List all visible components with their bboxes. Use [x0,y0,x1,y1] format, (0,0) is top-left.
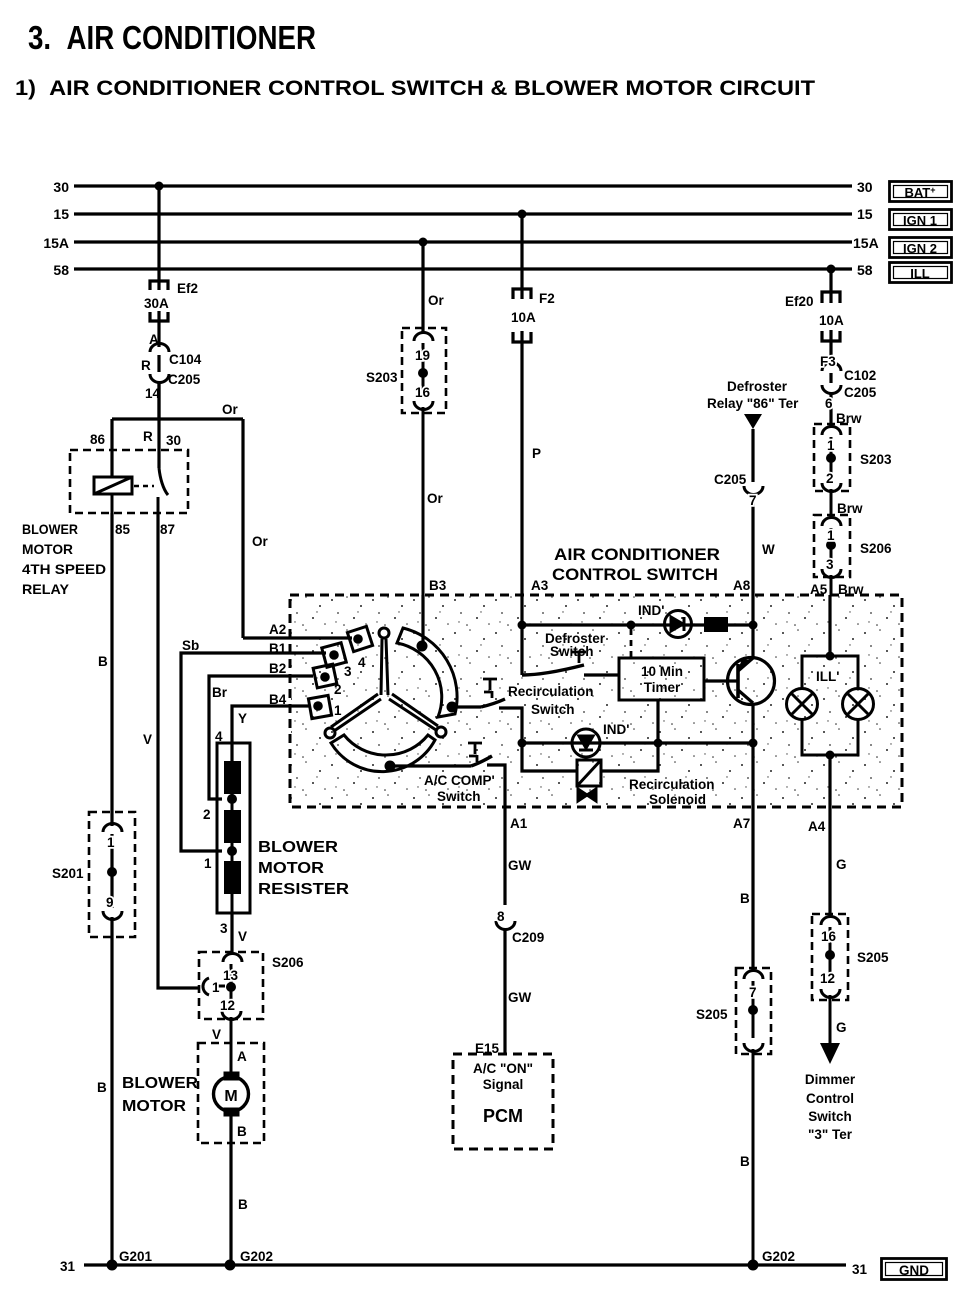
S206 pin 12 connector [222,1011,241,1020]
node G202 (motor) [225,1260,236,1271]
node S203 splice [418,368,428,378]
svg-text:G: G [836,857,847,872]
wire A1 GW down to C209 [496,807,515,1054]
blower motor resistor box [217,743,250,913]
relay coil-switch dashed link [134,485,154,488]
svg-text:6: 6 [825,396,833,411]
dashed control link to timer [630,629,633,658]
upper rail A3 to A8 [522,621,758,659]
wire Or from bus15A down to S203 [423,242,445,334]
svg-text:A5: A5 [810,582,828,597]
wire B from motor to G202 [231,1116,248,1265]
svg-text:G202: G202 [762,1249,795,1264]
wire timer to transistor base [704,679,738,682]
svg-text:Switch: Switch [531,702,575,717]
svg-text:7: 7 [749,493,757,508]
svg-text:B2: B2 [269,661,286,676]
S206 pin 13 connector [223,954,242,963]
terminal box BAT+ [890,182,952,283]
relay switch blade [159,468,168,495]
node: bus30 to Ef2 junction [155,182,164,191]
wire G from S205 to dimmer arrow [829,995,832,1043]
svg-text:A2: A2 [269,622,286,637]
connector C205 (pin 6) [822,385,841,394]
svg-text:3: 3 [220,921,228,936]
svg-text:Or: Or [252,534,269,549]
svg-text:Or: Or [428,293,445,308]
svg-text:Dimmer: Dimmer [805,1072,856,1087]
svg-text:B: B [97,1080,107,1095]
wire Brw to S203 [829,392,832,428]
svg-text:2: 2 [203,807,211,822]
relay coil [94,468,168,513]
svg-text:F3: F3 [820,354,836,369]
Y wire from B4 to resistor top [232,706,310,761]
wire bus30 down to fuse Ef2 [150,186,169,419]
svg-text:A/C "ON": A/C "ON" [473,1061,533,1076]
bottom ground bus 31 [84,1260,846,1271]
a/c comp switch [390,743,505,807]
wire R down into relay [157,381,160,468]
node resistor tap 2 [227,794,237,804]
wire 86 down into relay coil [110,419,113,477]
wire solenoid to lower rail [601,743,658,771]
splice S203 box (right) [814,424,850,491]
svg-text:MOTOR: MOTOR [258,860,324,877]
fan switch terminal 3 [322,643,346,667]
svg-text:S201: S201 [52,866,84,881]
node S205 right splice [825,950,835,960]
lamp right [843,689,874,720]
svg-text:3: 3 [344,664,352,679]
10 min timer box [619,658,704,700]
svg-text:Signal: Signal [483,1077,524,1092]
svg-text:IND': IND' [603,722,629,737]
svg-text:A4: A4 [808,819,826,834]
svg-text:IND': IND' [638,603,664,618]
svg-text:Ef20: Ef20 [785,294,814,309]
bus line 30 [74,186,852,269]
wire recirc sw to solenoid [522,743,577,771]
indicator LED IND' (top) [665,611,692,638]
svg-text:GW: GW [508,858,532,873]
S203 right pin 1 connector [822,427,841,436]
resistor internal wire [231,794,234,913]
svg-text:Sb: Sb [182,638,199,653]
svg-text:1: 1 [212,980,220,995]
wire B from A7 down to S205 [740,807,753,972]
node S205 left splice [748,1005,758,1015]
connector C104 (pin A / R) [150,344,169,353]
lamp left [787,689,818,720]
bus line 15 [74,212,852,215]
dimmer control arrow [820,1043,840,1064]
S205 right pin 12 connector [821,989,840,998]
svg-text:30: 30 [857,179,873,195]
fuse F2 [513,289,531,299]
svg-text:10 Min: 10 Min [641,664,683,679]
svg-text:Switch: Switch [550,644,594,659]
svg-text:F2: F2 [539,291,555,306]
bus labels left [43,179,69,278]
terminal box GND [882,1259,947,1280]
wire A5 Brw down to box [830,575,833,595]
node comp feed on lower band [385,761,396,772]
svg-text:3: 3 [826,557,834,572]
fuse Ef2 [150,281,168,290]
svg-text:Timer: Timer [644,680,681,695]
svg-text:30A: 30A [144,296,169,311]
blower motor M [214,1072,249,1116]
recirculation switch [452,679,522,743]
svg-text:7: 7 [749,985,757,1000]
svg-text:1: 1 [334,703,342,718]
wire Or down to A2 [241,419,244,638]
wire V from relay 87 down to S206 pin 11 [143,513,198,988]
svg-text:B: B [98,654,108,669]
svg-text:B: B [740,1154,750,1169]
svg-text:Y: Y [238,711,247,726]
terminal box ILL [890,263,952,283]
S206 right pin 1 connector [822,518,841,527]
splice S206 box (blower) [199,952,263,1019]
svg-text:4: 4 [215,729,223,744]
svg-text:Defroster: Defroster [727,379,788,394]
connector C209 (pin 8) [496,921,515,930]
label: blower motor 4th speed relay [22,521,106,597]
svg-text:15: 15 [857,206,873,222]
wire from bus15 down to fuse F2 [513,214,531,595]
svg-text:16: 16 [821,929,837,944]
svg-text:Or: Or [427,491,444,506]
wire V from S206 to blower motor [230,1017,233,1073]
fan switch terminal 2 [313,664,337,688]
svg-text:87: 87 [160,522,175,537]
terminal box IGN 2 [890,238,952,258]
svg-text:ILL': ILL' [816,669,839,684]
svg-text:IGN 2: IGN 2 [903,241,937,256]
S206 right pin 3 connector [822,569,841,578]
connector C102 (pin F3) [822,363,841,372]
defroster switch [518,595,620,675]
svg-text:B: B [238,1197,248,1212]
svg-text:Switch: Switch [808,1109,852,1124]
svg-text:8: 8 [497,909,505,924]
label: blower motor resister [258,839,350,898]
resistor element 3 [224,861,241,894]
wire C205 down to Or branch [157,381,160,419]
fan switch upper arc band [397,628,457,717]
node resistor tap 1 [227,846,237,856]
S205 right pin 16 connector [821,917,840,926]
svg-text:Brw: Brw [838,582,864,597]
svg-text:S206: S206 [860,541,892,556]
node S203 right splice [826,453,836,463]
fuse Ef20 [822,292,840,303]
resistor element 2 [224,810,241,843]
svg-text:12: 12 [820,971,835,986]
svg-text:GW: GW [508,990,532,1005]
S201 pin 1 connector [103,824,122,833]
control switch box speckled background [291,596,901,806]
svg-text:2: 2 [334,682,342,697]
node recirc feed on upper band [447,702,458,713]
svg-text:G: G [836,1020,847,1035]
wire A5 into box [828,595,831,656]
svg-text:31: 31 [60,1259,76,1274]
svg-text:15: 15 [53,206,69,222]
wire Or from S203 to B3 [422,407,425,595]
svg-text:A7: A7 [733,816,750,831]
fan switch terminal 1 [308,695,331,718]
recirculation solenoid coil [522,743,658,801]
node G201 [107,1260,118,1271]
S205 left pin 7 connector [744,971,763,980]
svg-text:B3: B3 [429,578,447,593]
svg-text:9: 9 [106,895,114,910]
svg-text:AIR CONDITIONER: AIR CONDITIONER [554,546,720,564]
svg-text:S203: S203 [366,370,398,385]
wire W from arrow to A8 [744,429,763,595]
wire timer bottom to lower rail [656,700,659,743]
svg-text:Relay "86" Ter: Relay "86" Ter [707,396,799,411]
svg-text:Solenoid: Solenoid [649,792,706,807]
S206 pin 11 connector [203,978,209,995]
svg-text:58: 58 [857,262,873,278]
splice S203 box (middle) [402,328,446,413]
svg-text:A: A [237,1049,247,1064]
svg-text:M: M [224,1088,237,1105]
svg-text:C205: C205 [714,472,747,487]
wire B3 down to band [422,595,423,646]
svg-text:C209: C209 [512,930,544,945]
svg-text:1: 1 [827,438,835,453]
PCM box [453,1054,553,1149]
svg-text:GND: GND [899,1263,929,1278]
svg-text:C104: C104 [169,352,202,367]
wire 85 down [111,494,114,513]
svg-text:S203: S203 [860,452,892,467]
splice S205 box (left) [736,968,771,1054]
air conditioner control switch dashed box [290,595,902,807]
wire B from relay 85 down to S201 [89,513,135,1265]
svg-text:1: 1 [827,528,835,543]
svg-text:10A: 10A [511,310,536,325]
svg-text:Ef2: Ef2 [177,281,198,296]
bus line 15A [74,240,852,243]
fan switch terminal 4 [308,626,372,718]
svg-text:C205: C205 [168,372,201,387]
label: dimmer control switch [805,1072,856,1142]
node S206 right splice [826,540,836,550]
fan switch lower arc band [331,735,435,772]
svg-text:19: 19 [415,348,430,363]
S205 left pin 4 connector [744,1043,763,1052]
node G202 (right) [748,1260,759,1271]
wire B from S201 to G201 [110,917,113,1265]
svg-text:1: 1 [107,835,115,850]
svg-text:Switch: Switch [437,789,481,804]
svg-text:A8: A8 [733,578,751,593]
svg-text:A1: A1 [510,816,528,831]
wire B from S205 to G202 [752,1049,755,1265]
node: bus15A to Or junction [419,238,428,247]
lower rail [518,739,754,748]
svg-text:A/C COMP': A/C COMP' [424,773,495,788]
svg-text:16: 16 [415,385,431,400]
svg-text:"3" Ter: "3" Ter [808,1127,853,1142]
node: bus58 to Ef20 junction [827,265,836,274]
svg-text:1: 1 [204,856,212,871]
relay box (blower motor 4th speed relay) [70,450,188,513]
svg-text:10A: 10A [819,313,844,328]
svg-text:Recirculation: Recirculation [629,777,715,792]
svg-text:B: B [237,1124,247,1139]
svg-text:31: 31 [852,1262,868,1277]
wire V from resistor 3 to S206 pin 13 [230,913,233,955]
svg-text:85: 85 [115,522,131,537]
Br wire from B2 to resistor tap 2 [209,676,313,799]
resistor block (top rail) [704,617,728,632]
relay contact 87 [157,497,160,513]
svg-text:86: 86 [90,432,106,447]
svg-text:13: 13 [223,968,239,983]
svg-text:MOTOR: MOTOR [22,541,73,557]
resistor element 1 [224,761,241,794]
indicator LED IND' (lower) [572,729,600,757]
wire A8/W vertical through box [749,595,758,807]
wire Ef20 to C102 [829,330,832,364]
svg-text:Control: Control [806,1091,854,1106]
terminal box IGN 1 [890,210,952,230]
ILL lamp circuit [787,652,874,760]
svg-text:C102: C102 [844,368,876,383]
node S201 splice [107,867,117,877]
svg-text:Br: Br [212,685,228,700]
bus line 58 [74,267,852,270]
svg-text:A: A [149,332,159,347]
svg-text:V: V [143,732,152,747]
svg-text:4: 4 [358,655,366,670]
svg-text:G202: G202 [240,1249,273,1264]
svg-text:RELAY: RELAY [22,581,70,597]
svg-text:W: W [762,542,775,557]
svg-text:PCM: PCM [483,1106,523,1126]
svg-text:R: R [141,358,151,373]
wire G from A4 down to S205 [830,807,847,918]
fan switch rotor star [325,628,446,738]
svg-text:12: 12 [220,998,235,1013]
connector C205 (pin 7) [744,486,763,495]
label: blower motor [122,1075,198,1115]
wire A4 out of box [828,755,831,807]
node: bus15 to F2 junction [518,210,527,219]
S203 pin 16 connector [414,401,433,410]
svg-text:C205: C205 [844,385,877,400]
bus labels right [853,179,879,278]
svg-text:IGN 1: IGN 1 [903,213,937,228]
svg-text:P: P [532,446,541,461]
node B3 on upper band [417,641,428,652]
svg-text:R: R [143,429,153,444]
wire Brw S203 to S206 [830,489,833,519]
label: air conditioner control switch [552,546,720,584]
S203 right pin 2 connector [822,483,841,492]
svg-text:B: B [740,891,750,906]
svg-text:B4: B4 [269,692,287,707]
svg-text:3. AIR CONDITIONER: 3. AIR CONDITIONER [28,19,316,56]
svg-text:ILL: ILL [910,266,930,281]
svg-text:BLOWER: BLOWER [22,521,78,537]
node S206 splice [226,982,236,992]
svg-text:Or: Or [222,402,239,417]
svg-text:RESISTER: RESISTER [258,881,350,898]
svg-text:S205: S205 [857,950,889,965]
svg-text:V: V [212,1027,221,1042]
svg-text:Brw: Brw [836,411,862,426]
wire P from F2 to A3 [520,331,523,595]
svg-text:30: 30 [166,433,181,448]
splice S206 box (right) [814,515,850,577]
svg-text:CONTROL SWITCH: CONTROL SWITCH [552,566,718,584]
transistor Q (control switch) [728,658,775,705]
svg-text:BLOWER: BLOWER [258,839,338,856]
wire A2 into terminal 4 [243,636,352,639]
svg-text:30: 30 [53,179,69,195]
svg-text:58: 58 [53,262,69,278]
wire Ef2 to C104 [157,311,160,347]
blower motor box [198,1043,264,1143]
svg-text:15A: 15A [853,235,879,251]
svg-text:15A: 15A [43,235,69,251]
splice S205 box (right) [812,914,848,1000]
wire LED to solenoid [584,757,587,760]
svg-text:BLOWER: BLOWER [122,1075,198,1092]
svg-text:2: 2 [826,471,834,486]
svg-text:MOTOR: MOTOR [122,1098,186,1115]
Sb wire from B1 to resistor tap 1 [181,638,326,851]
S203 pin 19 connector [414,333,433,341]
page titles [15,19,815,100]
svg-text:S205: S205 [696,1007,728,1022]
splice S201 box [89,812,135,937]
S201 pin 9 connector [103,911,122,920]
svg-text:S206: S206 [272,955,304,970]
solenoid valve bowtie [578,789,587,801]
connector C205 (pin 14) [150,374,169,383]
svg-text:4TH SPEED: 4TH SPEED [22,561,106,577]
svg-text:1) AIR CONDITIONER CONTROL SW: 1) AIR CONDITIONER CONTROL SWITCH & BLOW… [15,77,815,100]
defroster relay feed arrow [744,414,762,429]
wire: Or branch horizontal [112,381,243,638]
wire bus58 down to fuse Ef20 [822,269,841,428]
svg-text:B1: B1 [269,641,287,656]
svg-text:A3: A3 [531,578,549,593]
svg-text:G201: G201 [119,1249,153,1264]
svg-text:V: V [238,929,247,944]
svg-text:Recirculation: Recirculation [508,684,594,699]
